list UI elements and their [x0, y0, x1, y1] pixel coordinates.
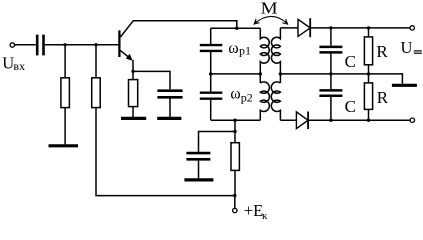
- wire bottom right rail: [308, 119, 410, 121]
- diode VD1: [298, 19, 310, 36]
- node bias divider top right: [94, 43, 97, 46]
- label U=: [401, 38, 413, 57]
- capacitor tank 1: [200, 45, 223, 51]
- label U_vx: [2, 53, 25, 73]
- wire top right rail: [310, 27, 410, 29]
- wire to resistor Rb1: [64, 45, 66, 78]
- wire to supply terminal: [234, 196, 236, 209]
- resistor Rb2: [92, 78, 101, 108]
- coupling capacitor: [37, 35, 43, 56]
- node secondary centre tap: [279, 72, 282, 75]
- wire input to coupling cap: [15, 44, 36, 46]
- svg-text:U: U: [401, 38, 413, 57]
- svg-text:ω: ω: [230, 86, 240, 103]
- wire down to decoupling resistor: [234, 120, 236, 143]
- wire tank left vertical lower: [210, 100, 212, 121]
- node C2 bottom: [329, 119, 332, 122]
- wire emitter down: [132, 60, 134, 72]
- resistor Rb1: [61, 78, 70, 108]
- capacitor tank 2: [200, 93, 223, 99]
- ground under Re: [121, 117, 146, 120]
- svg-text:p1: p1: [239, 44, 251, 58]
- resistor R1 right: [368, 28, 370, 37]
- wire secondary bottom to diode: [280, 119, 296, 121]
- svg-text:U: U: [2, 53, 14, 72]
- node bypass branch: [233, 130, 236, 133]
- mutual inductance arrow M: [255, 16, 287, 23]
- inductor secondary winding bottom: [271, 82, 280, 120]
- svg-text:p2: p2: [241, 91, 253, 105]
- label omega_p1: [228, 40, 251, 58]
- svg-text:R: R: [377, 88, 389, 107]
- svg-text:C: C: [345, 97, 356, 116]
- node primary centre tap: [259, 72, 262, 75]
- input terminal U_vx: [10, 43, 14, 47]
- transistor Q1 collector lead: [121, 21, 133, 37]
- svg-text:R: R: [376, 42, 388, 61]
- wire tank left vertical upper: [210, 28, 212, 44]
- node R1 bottom: [367, 72, 370, 75]
- wire secondary top to diode: [280, 27, 298, 29]
- terminal output top: [410, 26, 414, 30]
- wire mid right rail: [280, 74, 402, 84]
- transistor Q1 emitter lead: [121, 51, 132, 60]
- svg-text:C: C: [345, 52, 356, 71]
- capacitor supply bypass: [186, 153, 210, 159]
- capacitor emitter bypass: [157, 91, 182, 98]
- node supply junction: [233, 194, 236, 197]
- resistor Re: [129, 80, 138, 107]
- terminal output bottom: [410, 118, 414, 122]
- svg-text:+E: +E: [244, 201, 263, 220]
- wire bypass cap to ground: [169, 99, 171, 118]
- wire to supply bypass cap: [199, 132, 236, 152]
- ground right: [392, 84, 417, 87]
- capacitor C2: [319, 90, 342, 95]
- svg-text:к: к: [262, 210, 268, 222]
- wire C1 top stub: [330, 28, 332, 46]
- wire emitter junction to bypass cap: [133, 71, 170, 89]
- wire to resistor Rb2: [95, 45, 97, 78]
- resistor decoupling: [231, 143, 239, 171]
- ground under bypass cap: [157, 117, 181, 120]
- svg-text:M: M: [261, 0, 278, 17]
- node tank mid left: [209, 72, 212, 75]
- transistor Q1 emitter arrowhead: [126, 54, 133, 61]
- node R1 top: [367, 26, 370, 29]
- wire C1 bottom stub: [330, 54, 332, 74]
- wire collector rail: [133, 21, 237, 28]
- wire Rb2 down to bottom rail: [96, 108, 235, 196]
- svg-text:ω: ω: [228, 40, 238, 57]
- wire tank left vertical middle: [210, 52, 212, 92]
- wire tank bottom rail: [211, 119, 261, 121]
- node tank bottom junction: [233, 119, 236, 122]
- node bias divider top left: [63, 43, 66, 46]
- wire emitter junction to Re: [132, 71, 134, 79]
- ground under Rb1: [49, 144, 79, 147]
- terminal +Ek: [233, 208, 237, 212]
- wire bypass cap to ground: [198, 161, 200, 179]
- diode VD2: [296, 112, 308, 129]
- wire Rb1 to ground: [64, 108, 66, 145]
- wire C2 top stub: [330, 74, 332, 89]
- ground under supply bypass cap: [184, 178, 213, 181]
- wire mid left rail: [211, 73, 261, 75]
- svg-text:вх: вх: [13, 59, 25, 73]
- capacitor C1: [319, 47, 342, 53]
- label +Ek: [244, 201, 268, 222]
- wire decoupling resistor to bottom rail: [234, 170, 236, 195]
- transistor Q1 base bar: [118, 30, 120, 57]
- inductor primary winding bottom: [260, 82, 269, 120]
- label omega_p2: [230, 86, 252, 105]
- node C1 top: [329, 26, 332, 29]
- wire cap to base: [45, 44, 119, 46]
- node C1 bottom: [329, 72, 332, 75]
- node collector to tank top: [235, 27, 238, 30]
- wire C2 bottom stub: [330, 97, 332, 120]
- node emitter junction: [131, 70, 134, 73]
- wire Re to ground: [132, 107, 134, 117]
- resistor R2 right: [368, 74, 370, 83]
- node R2 bottom: [367, 119, 370, 122]
- inductor primary winding top: [260, 28, 269, 83]
- inductor secondary winding top: [271, 28, 280, 83]
- wire tank top rail: [211, 27, 261, 29]
